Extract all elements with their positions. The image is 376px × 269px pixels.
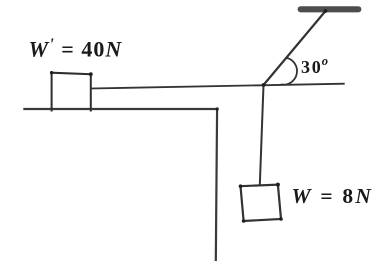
svg-text:W' = 40N: W' = 40N [29,35,123,62]
svg-text:o: o [322,54,328,68]
svg-text:30: 30 [301,57,323,77]
table leg [216,109,217,261]
ceiling bar [298,6,362,12]
table top [23,108,217,110]
vertex dots [50,9,328,223]
label 30 degrees [301,54,328,77]
block W' on table [52,73,91,112]
string from block W' to junction [91,84,345,89]
vertical string to weight [260,85,264,186]
angle arc [281,58,297,85]
weight W block [241,185,282,221]
rope to ceiling [264,11,326,85]
svg-text:W = 8N: W = 8N [292,184,374,208]
